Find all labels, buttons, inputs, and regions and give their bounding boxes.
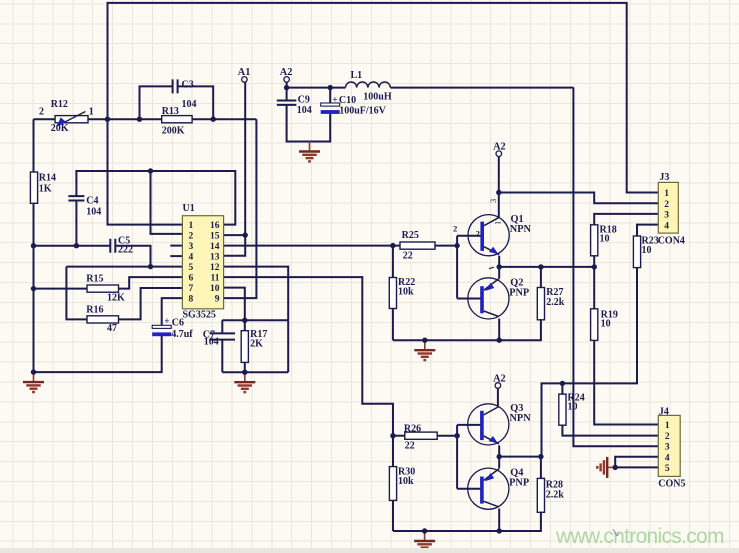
svg-text:10: 10 [601,319,611,330]
svg-text:www.cntronics.com: www.cntronics.com [555,525,724,548]
svg-text:J4: J4 [659,407,669,418]
wire R15 right to U1 pin 6 [119,277,183,289]
wire A2 to Q1 collector [498,156,500,217]
svg-text:R15: R15 [86,274,103,285]
svg-text:10: 10 [210,284,220,294]
svg-text:1: 1 [89,107,94,118]
svg-text:R12: R12 [51,99,68,110]
wire y245 row to C5 [34,245,111,247]
wire R26 right [437,435,457,437]
svg-text:1: 1 [665,421,670,431]
wire U1 pin 11 to R26 net [224,277,393,436]
resistor R27 [537,288,544,320]
op-amp U1 SG3525 [182,216,223,309]
wire U1 pin 3 stub [170,245,182,247]
svg-text:4: 4 [189,253,194,263]
svg-text:A2: A2 [280,67,293,78]
junction at 424.8,340.2 [422,338,427,343]
resistor R12 (pot body) [55,116,88,123]
transistor Q2 PNP [468,278,509,319]
svg-text:104: 104 [86,207,101,218]
svg-text:C4: C4 [86,196,98,207]
connector J3 CON4 [658,182,678,233]
svg-text:222: 222 [118,245,133,256]
svg-text:CON5: CON5 [658,479,685,490]
capacitor C9 [277,101,297,105]
wire R16 right to U1 pin 7 [119,288,183,319]
svg-text:2.2k: 2.2k [546,490,565,501]
svg-text:SG3525: SG3525 [183,309,216,320]
svg-text:10k: 10k [398,476,414,487]
wire Q3/Q4 base tie riser [456,425,458,489]
wire to R26 left [393,435,405,437]
junction at 540.9,456.6 [538,454,543,459]
svg-text:14: 14 [210,242,220,252]
svg-text:A2: A2 [493,374,506,385]
junction at 498.8,192.5 [496,190,501,195]
wire C4 bottom stub [75,201,77,246]
wire emitter-ground row to R27 bottom [393,320,541,340]
resistor R28 [537,478,544,512]
svg-text:4.7uf: 4.7uf [171,329,193,340]
resistor R13 [162,116,192,123]
wire L1 output rail to J4 pin3 [573,87,658,446]
svg-text:2K: 2K [250,339,263,350]
ground R17/C7 [244,372,246,382]
junction at 139.5,119.2 [137,117,142,122]
wire Q3 emitter stem [498,445,500,456]
svg-text:C3: C3 [182,80,194,91]
svg-text:11: 11 [211,274,220,284]
resistor R18 [591,225,598,256]
junction at 150.5,266.6 [148,264,153,269]
junction at 594.3,266.9 [592,264,597,269]
svg-text:J3: J3 [659,172,669,183]
svg-text:104: 104 [204,337,219,348]
svg-text:104: 104 [182,99,197,110]
junction at 392.9,245.6 [390,243,395,248]
capacitor C7 [210,333,236,339]
wire Q1 emitter stem [498,256,500,267]
wire U1 pin 12 to R17/C7 top [224,267,289,321]
svg-text:2: 2 [39,107,44,118]
svg-text:2: 2 [665,432,670,442]
wire loop right side [287,320,289,372]
wire C10 top stub [329,88,331,103]
svg-text:C10: C10 [339,95,356,106]
svg-text:13: 13 [210,253,220,263]
wire A2 to Q3 collector [497,388,499,406]
capacitor C3 plates [173,79,178,93]
wire Q1 collector to J3 pin 2 [499,193,659,204]
svg-text:1: 1 [664,189,669,199]
wire riser to U1 pin 9 [224,119,257,298]
svg-text:+: + [164,317,169,327]
junction at 33.5,245.7 [31,243,36,248]
svg-text:104: 104 [297,105,312,116]
svg-text:15: 15 [210,232,220,242]
wire J4 pin4/pin5 tie to ground [615,457,658,468]
ground J4 (sideways) [608,466,616,468]
junction at 499.2,531 [497,528,502,533]
resistor R16 [87,316,119,323]
svg-text:2: 2 [453,224,457,234]
svg-text:PNP: PNP [509,287,529,298]
svg-text:R25: R25 [402,230,419,241]
junction at 424.6,531 [422,528,427,533]
svg-text:R16: R16 [86,305,103,316]
transistor Q3 NPN [468,404,509,445]
svg-text:+: + [332,96,337,106]
wire C4 top to U1 pin 16 [76,171,235,225]
svg-text:NPN: NPN [510,413,532,424]
junction at 213.2,119.2 [211,117,216,122]
svg-text:12: 12 [210,263,220,273]
svg-text:2.2k: 2.2k [546,297,565,308]
connector J4 CON5 [658,415,680,476]
junction at 499.2,266.9 [497,264,502,269]
ground C9/C10 [309,142,311,152]
wire riser to U1 pin 2 [151,171,183,234]
svg-text:PNP: PNP [509,478,529,489]
resistor R23 [633,236,640,268]
wire R25 right [435,245,457,247]
svg-text:L1: L1 [351,70,363,81]
junction at 244.8,372.2 [242,370,247,375]
svg-text:10: 10 [568,402,578,413]
wire C6 bottom to ground rail [34,335,162,372]
node A2 port (Q1) [496,151,502,157]
resistor R25 [400,242,435,249]
svg-text:1K: 1K [39,184,52,195]
wire down to R16 left [66,267,87,320]
resistor R19 [591,309,598,341]
ground R22/Q2 row [424,340,426,350]
wire Q3/Q4 junction to R28 [499,456,541,458]
wire A1 down to U1 pins 15/13 [182,82,245,256]
wire loop bottom [222,371,288,373]
wire R17/C7 loop top [222,319,288,321]
svg-text:NPN: NPN [510,224,532,235]
svg-text:22: 22 [405,441,415,452]
junction at 150.5,171 [148,168,153,173]
svg-text:2: 2 [664,200,669,210]
node A2 port (Q3) [495,383,501,389]
wire top power rail to J3 pin 1 [108,3,659,193]
svg-text:3: 3 [664,211,669,221]
wire Q4 top stem [498,457,500,468]
svg-text:6: 6 [189,274,194,284]
junction at 286.6,87.6 [284,85,289,90]
wire U1 pin 8 to C6 [162,298,183,325]
svg-text:R14: R14 [39,173,56,184]
wire bottom row to R28 bottom [393,512,541,531]
resistor R17 [241,331,248,363]
svg-text:5: 5 [189,263,194,273]
capacitor C6 (polarized) [152,325,171,328]
svg-text:100uH: 100uH [363,92,392,103]
svg-text:U1: U1 [183,203,195,214]
svg-text:20K: 20K [51,123,69,134]
junction at 457.1,435.7 [454,433,459,438]
wire left rail to R15 [34,288,88,290]
svg-text:10k: 10k [398,287,414,298]
wire R30 branch down [392,436,394,531]
junction at 562.4,383.4 [560,381,565,386]
svg-text:2: 2 [476,229,480,239]
wire R28 top stub [540,457,542,479]
resistor R26 [405,432,437,439]
svg-text:3: 3 [189,242,194,252]
junction at 33.5,372.1 [31,369,36,374]
svg-text:12K: 12K [107,293,125,304]
svg-text:22: 22 [403,251,413,262]
wire Q1/Q2 junction row [499,266,594,268]
capacitor C4 [68,196,84,200]
resistor R24 [559,394,566,425]
capacitor C10 (polarized) [321,103,340,106]
svg-text:C9: C9 [298,94,310,105]
svg-text:200K: 200K [162,126,185,137]
wire R27 top stub [540,267,542,288]
svg-text:1: 1 [189,221,194,231]
wire U1 pin 10 down to R17 top [224,288,245,321]
wire Q2 top stem [498,267,500,278]
wire U1 pin 5 row [66,266,182,268]
wire A2 row to L1 [287,87,346,89]
wire Q1 base [457,235,482,237]
svg-text:A2: A2 [493,142,506,153]
junction at 245.2,235.1 [243,232,248,237]
resistor R15 [87,285,119,292]
wire Q2 bottom stem [498,319,500,341]
resistor R30 [389,467,396,501]
wire C5 right to pin5 net [115,246,150,267]
svg-text:C6: C6 [172,318,184,329]
wire U1 pin 4 stub [170,255,182,257]
junction at 540.9,266.9 [538,264,543,269]
junction at 244.8,320.3 [242,318,247,323]
junction at 499.2,456.6 [497,454,502,459]
svg-text:10: 10 [642,245,652,256]
svg-text:7: 7 [189,284,194,294]
junction at 499.2,340.2 [497,338,502,343]
wire A2 stem to C9 [286,82,288,101]
wire R12-R13 row [34,118,257,120]
svg-text:A1: A1 [238,67,251,78]
svg-text:1: 1 [493,221,503,225]
transistor Q1 NPN [468,215,509,256]
wire C7 stems [221,320,223,372]
transistor Q4 PNP [468,468,509,509]
svg-text:5: 5 [665,464,670,474]
wire R22 branch down [392,246,394,341]
junction at 107.5,119.2 [105,117,110,122]
wire Q4 base [457,488,482,490]
ground left rail [33,372,35,382]
wire Q1/Q2 base tie riser [456,236,458,299]
wire C9/C10 bottom loop [287,106,331,142]
ground bottom row [424,531,426,541]
junction at 393,435.7 [390,433,395,438]
wire Q4 bottom stem [498,509,500,532]
svg-text:4: 4 [664,221,669,231]
wire U1 pin 15 stub [224,234,246,236]
junction at 457.1,245.6 [454,243,459,248]
svg-text:3: 3 [488,199,498,203]
svg-text:R26: R26 [404,424,421,435]
wire U1 pin 14 to R25 [224,245,400,247]
junction at 330.2,87.6 [328,85,333,90]
junction at 33.5,288.6 [31,286,36,291]
svg-text:2: 2 [189,232,194,242]
wire J3 pin3 - R18 - R19 - J4 pin1 [594,214,658,425]
resistor R14 [30,172,37,203]
svg-text:10: 10 [600,234,610,245]
node A2 port (top) [284,77,290,83]
wire C3 parallel loop [140,86,214,119]
svg-text:CON4: CON4 [658,236,685,247]
resistor R22 [389,278,396,309]
node A1 port [242,77,248,83]
svg-text:8: 8 [189,295,194,305]
svg-text:3: 3 [665,443,670,453]
svg-text:9: 9 [215,295,220,305]
svg-text:4: 4 [665,453,670,463]
wire rail down to U1 pin 1 [108,119,183,224]
wire Q2 base [457,298,482,300]
inductor L1 [346,82,391,88]
svg-text:100uF/16V: 100uF/16V [339,106,386,117]
svg-text:47: 47 [107,323,117,334]
junction at 76.4,245.7 [74,243,79,248]
svg-text:16: 16 [210,221,220,231]
junction at 615.2,467.4 [613,465,618,470]
wire R17 stubs [244,320,246,372]
wire J3 pin4 - R23 branch [542,225,659,457]
wire R24 branch to J4 pin2 [562,383,658,435]
wire left ground rail [33,119,35,372]
capacitor C5 [110,239,115,253]
wire Q3 base [457,424,482,426]
wire L1 to rail corner [391,87,574,89]
svg-text:R13: R13 [162,106,179,117]
